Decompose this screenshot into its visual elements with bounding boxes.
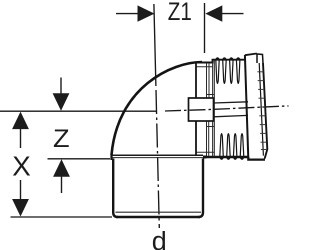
outer arc of elbow [112,62,203,155]
stub (inner pipe end) rectangle [189,98,214,121]
rib wall companion line upper [212,63,214,99]
rim face ticks [257,72,266,150]
svg-text:d: d [152,228,167,250]
dimension Z top arrow (down arrow above centerline) [53,78,70,111]
socket top inner line [196,66,213,68]
Z1 right arrow [205,5,243,21]
socket back wall lower [195,121,197,155]
socket bottom edge [203,156,248,159]
rim top corner box [257,54,263,63]
bore lines [214,102,249,117]
socket bottom-left corner step [203,156,207,159]
Z bottom reference line [48,158,111,160]
svg-text:X: X [12,151,31,182]
socket shoulder lines upper [207,63,215,98]
rim face inner line [259,63,263,156]
socket bottom inner line [196,151,214,153]
horizontal centerline solid left segment [0,110,157,112]
top ribs loops [216,60,240,84]
socket top edge (inner step) [196,60,245,63]
dimension X down arrow [12,180,29,217]
collar second line [112,157,204,159]
rim top edge [245,54,257,56]
rim bottom edge [248,157,265,160]
pipe bottom chamfer inner line [116,211,202,213]
bottom rib bumps [220,157,245,160]
dimension Z bottom arrow (up arrow below Z line) [53,159,70,193]
horizontal centerline dash-dot through socket [165,106,289,111]
svg-text:Z: Z [53,125,70,153]
dimension X up arrow [12,112,29,148]
socket shoulder lines lower [207,122,215,157]
rim left edge [245,55,248,159]
rib section left wall [213,61,215,157]
bottom ribs loops [220,134,244,157]
Z1 left arrow [116,5,155,21]
pipe left edge [113,159,118,218]
Z1 right extension line [204,3,206,53]
top rib bumps [215,57,240,60]
rim right edge [263,63,267,159]
rib wall companion line lower [212,121,214,156]
collar top line at pipe top [112,154,204,156]
pipe right edge [199,159,204,218]
X bottom reference line [11,216,113,218]
collar left tip [110,154,112,160]
socket back wall upper [195,63,197,99]
vertical centerline solid top segment (Z1 left extension) [154,4,156,86]
svg-text:Z1: Z1 [168,0,192,26]
vertical centerline dash-dot [156,90,159,228]
pipe bottom edge [116,216,200,219]
